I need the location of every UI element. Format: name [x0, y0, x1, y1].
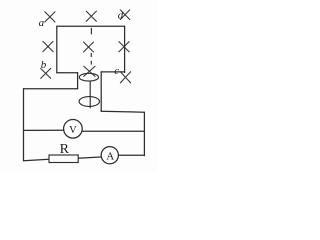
field cross bottom-middle on slip ring	[84, 66, 95, 76]
svg-text:A: A	[106, 150, 114, 162]
wire resistor to ammeter	[78, 157, 102, 158]
wire right lead down along axle	[100, 72, 102, 111]
voltmeter U1 circle	[64, 120, 83, 139]
wire voltmeter branch left	[24, 129, 64, 131]
svg-text:V: V	[69, 125, 77, 136]
field cross bottom-left	[41, 68, 51, 78]
wire left lead down from coil	[77, 73, 79, 89]
svg-text:c: c	[114, 65, 119, 77]
slip ring lower	[79, 97, 99, 107]
field cross bottom-right	[120, 72, 130, 83]
field cross center	[83, 42, 93, 52]
wire voltmeter branch right	[82, 130, 145, 132]
coil bottom edge left segment (b side)	[57, 72, 78, 74]
coil bottom edge right segment (c side)	[101, 71, 124, 73]
ammeter A1 circle	[101, 147, 118, 164]
field cross top-right	[120, 10, 129, 20]
wire bottom left to resistor	[24, 159, 50, 160]
resistor R box	[49, 155, 78, 163]
field cross top-middle	[86, 11, 96, 21]
wire lower brush to right rail	[101, 111, 144, 112]
wire left rail	[23, 89, 25, 161]
svg-text:d: d	[118, 9, 124, 21]
wire right rail	[143, 112, 145, 155]
coil left edge ab	[56, 26, 58, 73]
axle solid shaft	[89, 81, 91, 109]
svg-text:R: R	[60, 142, 70, 157]
field cross middle-right	[119, 42, 129, 52]
coil right edge dc	[124, 26, 126, 72]
slip ring upper	[79, 73, 98, 81]
rotation axis dashed	[90, 28, 92, 65]
field cross middle-left	[43, 41, 53, 51]
wire ammeter to right rail	[118, 154, 144, 156]
field cross top-left	[45, 12, 55, 22]
wire upper brush to left rail	[24, 88, 78, 90]
coil top edge ad	[57, 25, 125, 27]
svg-text:b: b	[41, 59, 47, 71]
svg-text:a: a	[39, 17, 45, 29]
